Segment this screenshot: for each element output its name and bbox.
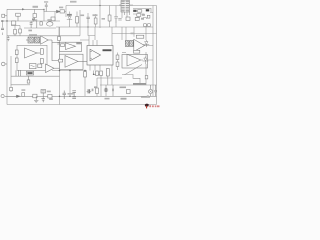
dark text label T23 <box>133 10 136 12</box>
filter F1 box <box>30 64 37 69</box>
wire vert x77 <box>76 12 78 28</box>
op-amp U4 <box>25 48 38 58</box>
filter squiggle <box>31 65 35 67</box>
resistor R24 hatched <box>130 41 134 47</box>
capacitor C14 polarized dark <box>88 89 90 93</box>
resistor R13 <box>137 14 141 17</box>
resistor R35 chain <box>116 55 119 60</box>
resistor R40 <box>10 87 13 90</box>
op-amp U1 pins marks <box>90 52 92 59</box>
wire vert x20 <box>19 26 21 36</box>
text label T18 <box>44 1 48 3</box>
text label T16 <box>68 93 74 95</box>
junction dot ic out <box>93 73 95 75</box>
resistor R6 <box>51 17 55 21</box>
resistor R37 <box>40 49 43 55</box>
wire dashed box bottom ext <box>52 70 87 72</box>
op-amp U7 <box>65 56 78 68</box>
text label T5 <box>133 83 146 85</box>
text label T20 <box>92 89 94 92</box>
wire vert x57.5 <box>59 27 61 105</box>
diode D2 <box>143 40 149 47</box>
wire vert x116 <box>115 6 117 28</box>
resistor R7 <box>60 10 65 13</box>
text label T32 <box>33 19 37 21</box>
wire bus y96 main <box>6 95 157 97</box>
wire vert x107.8 <box>107 68 109 85</box>
capacitor C9 <box>41 99 45 103</box>
wire bus y78 <box>97 77 122 79</box>
diode D7 on bus <box>22 8 25 10</box>
resistor R23 hatched <box>125 41 129 47</box>
wire x117.5 chain <box>117 53 119 71</box>
wire U9 bottom step <box>122 75 140 86</box>
connector J1 input <box>1 62 5 66</box>
module box U9 <box>122 55 148 69</box>
resistor R38 <box>40 59 43 64</box>
op-amp U5 <box>46 64 55 73</box>
text label T6 <box>120 87 127 89</box>
resistor R15 hatched <box>28 37 33 43</box>
text label T13 <box>121 98 127 100</box>
wire vert x70 low <box>69 71 71 97</box>
resistor R17 edge <box>15 50 18 55</box>
resistor R5 top <box>33 14 36 18</box>
diode D1 arrow <box>57 10 61 13</box>
resistor R27 <box>33 94 37 98</box>
IC U2 top-right box <box>121 1 130 13</box>
text label T7 <box>141 97 150 98</box>
resistor R25 feedback <box>134 50 140 53</box>
wire vert x36.8 <box>36 21 38 28</box>
wire vert x126 <box>125 27 127 40</box>
junction dot x88 <box>87 26 88 27</box>
resistor R1 <box>12 21 16 25</box>
capacitor C4 <box>114 17 117 24</box>
wire vert x88 <box>87 13 89 27</box>
text label T29 <box>32 18 35 20</box>
IC U1 central box <box>87 46 113 66</box>
wire opamp outputs right <box>141 46 153 61</box>
resistor R39 <box>22 93 25 97</box>
resistor R32 <box>96 71 99 76</box>
text label T14 <box>29 34 37 36</box>
resistor R42 <box>145 76 148 79</box>
wire vert x15 <box>14 26 16 36</box>
wire vert x109.5 <box>109 6 111 28</box>
wire right border <box>156 6 158 105</box>
resistor R20 <box>61 44 65 47</box>
wire jog x66 <box>65 6 67 12</box>
diode D3 <box>143 57 149 65</box>
wire right area <box>133 13 153 28</box>
speaker SP1 <box>149 89 153 93</box>
wire J1 <box>5 63 7 65</box>
resistor R4 top <box>16 13 21 16</box>
text label T1 <box>33 6 39 8</box>
IC U1 label <box>103 49 112 51</box>
potentiometer arrow <box>125 65 143 75</box>
text label T15 <box>102 18 106 20</box>
capacitor C12 <box>154 85 157 96</box>
wire bottom border <box>7 104 157 106</box>
capacitor C3 <box>87 17 90 23</box>
wire bus right mid <box>122 52 126 54</box>
capacitor C6a <box>143 24 146 27</box>
resistor R21 <box>59 59 63 62</box>
capacitor C1 top-left <box>1 28 4 29</box>
wire vert x95.5 <box>95 14 97 27</box>
relay K1 box <box>27 71 34 75</box>
wire left vertical 2 <box>11 56 30 85</box>
op-amp U6 <box>66 43 76 50</box>
wire central ic pins bottom <box>90 65 100 71</box>
wire mid bus y21 <box>3 20 61 22</box>
resistor R26 vert <box>106 69 109 77</box>
capacitor C11 double <box>72 91 76 99</box>
wire bus y27 <box>56 26 153 28</box>
wire vert x44 <box>43 9 45 21</box>
capacitor C15 below bus <box>7 36 10 41</box>
wire SP1 <box>150 85 152 96</box>
wire ic feed verticals <box>88 27 95 40</box>
wire vert x59 <box>58 27 60 36</box>
wire vert x146 low <box>145 52 147 85</box>
resistor R16 hatched <box>34 37 39 43</box>
wire bus y28 <box>24 27 56 29</box>
wire top bus left <box>7 9 66 11</box>
wire vert x11 ext <box>10 85 12 92</box>
resistor R29 <box>48 94 52 98</box>
resistor R33 <box>100 71 103 76</box>
wire sub bus y8.4 <box>133 8 151 12</box>
wire U7 out <box>78 60 87 62</box>
resistor R12 <box>138 10 142 13</box>
wire vert x55 top <box>54 12 56 22</box>
capacitor C7 <box>57 43 61 45</box>
text label T17 <box>21 89 25 91</box>
module box stage3 <box>60 54 84 69</box>
wire C17 <box>105 85 107 96</box>
wire vert x100 <box>99 0 101 28</box>
text label T30 <box>28 30 32 32</box>
text label T11 <box>49 98 53 100</box>
op-amp U3 small <box>41 36 49 44</box>
capacitor C10 <box>63 91 67 100</box>
component chain x59 <box>58 37 61 41</box>
diode D6 <box>67 17 72 20</box>
wire left cap branch <box>2 21 4 35</box>
wire y40 bus over ic <box>80 36 89 40</box>
text label T31 <box>59 7 63 9</box>
wire top bus right <box>66 5 157 7</box>
wire vert x34.7 top <box>34 9 36 21</box>
diode D4 arrow <box>17 95 21 97</box>
resistor R30 <box>96 88 99 94</box>
resistor R3 <box>19 29 22 33</box>
resistor R2 <box>14 30 17 35</box>
text label T19 <box>67 14 72 16</box>
text label T27 <box>112 89 114 92</box>
junction dot x33 <box>32 20 33 21</box>
capacitor C2 <box>30 21 33 28</box>
wire x52 feed <box>48 40 59 61</box>
wire vert x112 <box>111 27 113 85</box>
text label T4 <box>94 86 97 88</box>
resistor R9 <box>94 18 97 24</box>
resistor R8 vert <box>76 17 79 24</box>
wire hatch input <box>26 39 28 41</box>
wire bus y33.5 right <box>112 33 157 35</box>
text label T28 <box>47 19 52 21</box>
IC U2 center gap <box>124 1 126 13</box>
wire vert x134 <box>133 27 135 37</box>
connector J2 input bottom <box>1 95 4 98</box>
wire vert x80 <box>79 10 81 36</box>
wire stage1 bottom pins <box>16 70 21 76</box>
text label T21 <box>76 43 81 45</box>
resistor R31 <box>127 90 131 94</box>
text label T9 <box>81 15 85 17</box>
junction dots <box>6 5 100 97</box>
wire R4 down <box>17 16 19 21</box>
capacitor C16 <box>147 15 150 18</box>
resistor R19 <box>38 64 42 68</box>
capacitor C6b <box>147 24 150 27</box>
wire bus y25.5 <box>11 25 20 27</box>
module box stage2 <box>60 42 82 51</box>
dark text label T3 <box>146 9 149 11</box>
wire U5 out <box>54 67 60 69</box>
watermark logo <box>145 104 160 109</box>
terminal left y21 <box>1 20 3 22</box>
op-amp U9 <box>127 54 141 66</box>
wire vert x122 <box>121 27 123 40</box>
wire x113 drop <box>112 85 114 96</box>
capacitor C17 polarized dark <box>105 88 107 92</box>
wire vert x85 low <box>84 71 86 97</box>
wire ic pins down <box>119 5 133 18</box>
text label T22 <box>131 33 135 35</box>
wire U4 out <box>37 52 40 54</box>
wire left vertical main <box>6 9 8 104</box>
module box stage1 <box>17 45 47 70</box>
wire vert x97 x101 low <box>97 78 101 96</box>
wire bus y35.8 <box>7 35 80 37</box>
resistor R14 <box>135 18 139 21</box>
text label T8 <box>70 1 77 3</box>
op-amp U1 triangle <box>90 49 101 61</box>
IC U2 pin stripes <box>121 2 129 11</box>
ground G1 <box>34 96 38 102</box>
capacitor C13 top <box>45 3 48 12</box>
text label T10 <box>47 91 51 93</box>
wire left input line <box>5 95 19 97</box>
capacitor C5 <box>118 19 121 21</box>
text label T24 <box>142 14 145 16</box>
wire central ic top pins <box>89 40 97 46</box>
wire vert x70 mid <box>69 12 71 28</box>
resistor R11 <box>126 17 130 20</box>
text label T26 <box>147 95 149 97</box>
wire vert x153 <box>152 6 154 97</box>
oscillator Y1 ellipse <box>47 22 53 26</box>
resistor R18 edge <box>15 58 18 63</box>
wire K2 down <box>42 93 44 99</box>
wire bus y85 right <box>100 84 157 86</box>
connector J3 small <box>2 14 5 17</box>
resistor R34 vert left <box>84 72 87 78</box>
wire vert x146 mid <box>145 27 147 40</box>
text label T25 <box>141 18 144 20</box>
text label T2 <box>93 14 98 16</box>
wire vert x66 low <box>65 12 67 18</box>
text label T12 <box>105 98 110 100</box>
op-amp U8 <box>134 39 145 51</box>
resistor R41 below <box>27 80 30 83</box>
wire ic out step <box>94 71 102 79</box>
wire bus y76 left <box>11 75 60 77</box>
resistor R43 <box>40 22 43 25</box>
relay K2 box <box>41 90 46 94</box>
resistor R36 chain <box>116 62 119 67</box>
resistor R22 <box>136 35 144 38</box>
resistor R10 <box>108 15 111 21</box>
